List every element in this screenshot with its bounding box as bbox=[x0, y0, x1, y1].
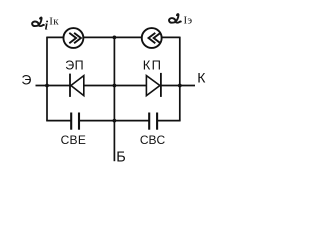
junction middle rail / bottom wire bbox=[113, 119, 117, 123]
wire bottom left (to CBE) bbox=[46, 120, 71, 122]
svg-text:i: i bbox=[45, 19, 49, 33]
svg-text:CBE: CBE bbox=[61, 133, 87, 147]
wire left rail bbox=[46, 37, 48, 121]
capacitor C2 (CBC) right plate bbox=[156, 113, 158, 130]
diode VD1 (EP) cathode bar bbox=[69, 74, 71, 97]
current source U2 arrows bbox=[149, 33, 161, 43]
current source U2 circle (alpha Ie) bbox=[142, 28, 162, 48]
diode VD1 (EP) triangle bbox=[71, 76, 84, 96]
diode VD2 (KP) triangle bbox=[146, 76, 160, 96]
svg-text:Э: Э bbox=[21, 71, 31, 87]
label alpha_i (script alpha glyph) bbox=[32, 18, 44, 27]
svg-text:К: К bbox=[197, 69, 206, 85]
junction right rail / main wire bbox=[178, 84, 182, 88]
svg-text:Iк: Iк bbox=[49, 16, 59, 28]
label alpha (right source) bbox=[169, 14, 181, 23]
wire right rail bbox=[179, 37, 181, 121]
diode VD2 (KP) cathode bar bbox=[160, 73, 162, 97]
wire top horizontal bbox=[47, 36, 180, 38]
wire middle rail (base) bbox=[113, 37, 115, 161]
wire bottom right (to right rail) bbox=[157, 120, 181, 122]
svg-text:КП: КП bbox=[143, 58, 162, 73]
svg-text:ЭП: ЭП bbox=[65, 59, 84, 73]
svg-text:CBC: CBC bbox=[140, 133, 166, 147]
current source U1 arrows bbox=[69, 33, 81, 43]
junction top middle bbox=[113, 36, 117, 40]
junction middle rail / main wire bbox=[113, 84, 117, 88]
wire main horizontal (emitter-collector row) bbox=[36, 85, 196, 87]
svg-text:Б: Б bbox=[116, 150, 126, 166]
capacitor C1 (CBE) right plate bbox=[78, 113, 80, 130]
junction left rail / main wire bbox=[45, 84, 49, 88]
current source U1 circle (alpha_i Ik) bbox=[63, 28, 83, 48]
svg-text:Iэ: Iэ bbox=[184, 15, 193, 27]
wire bottom middle bbox=[79, 120, 149, 122]
capacitor C2 (CBC) left plate bbox=[148, 113, 150, 130]
capacitor C1 (CBE) left plate bbox=[70, 113, 72, 130]
